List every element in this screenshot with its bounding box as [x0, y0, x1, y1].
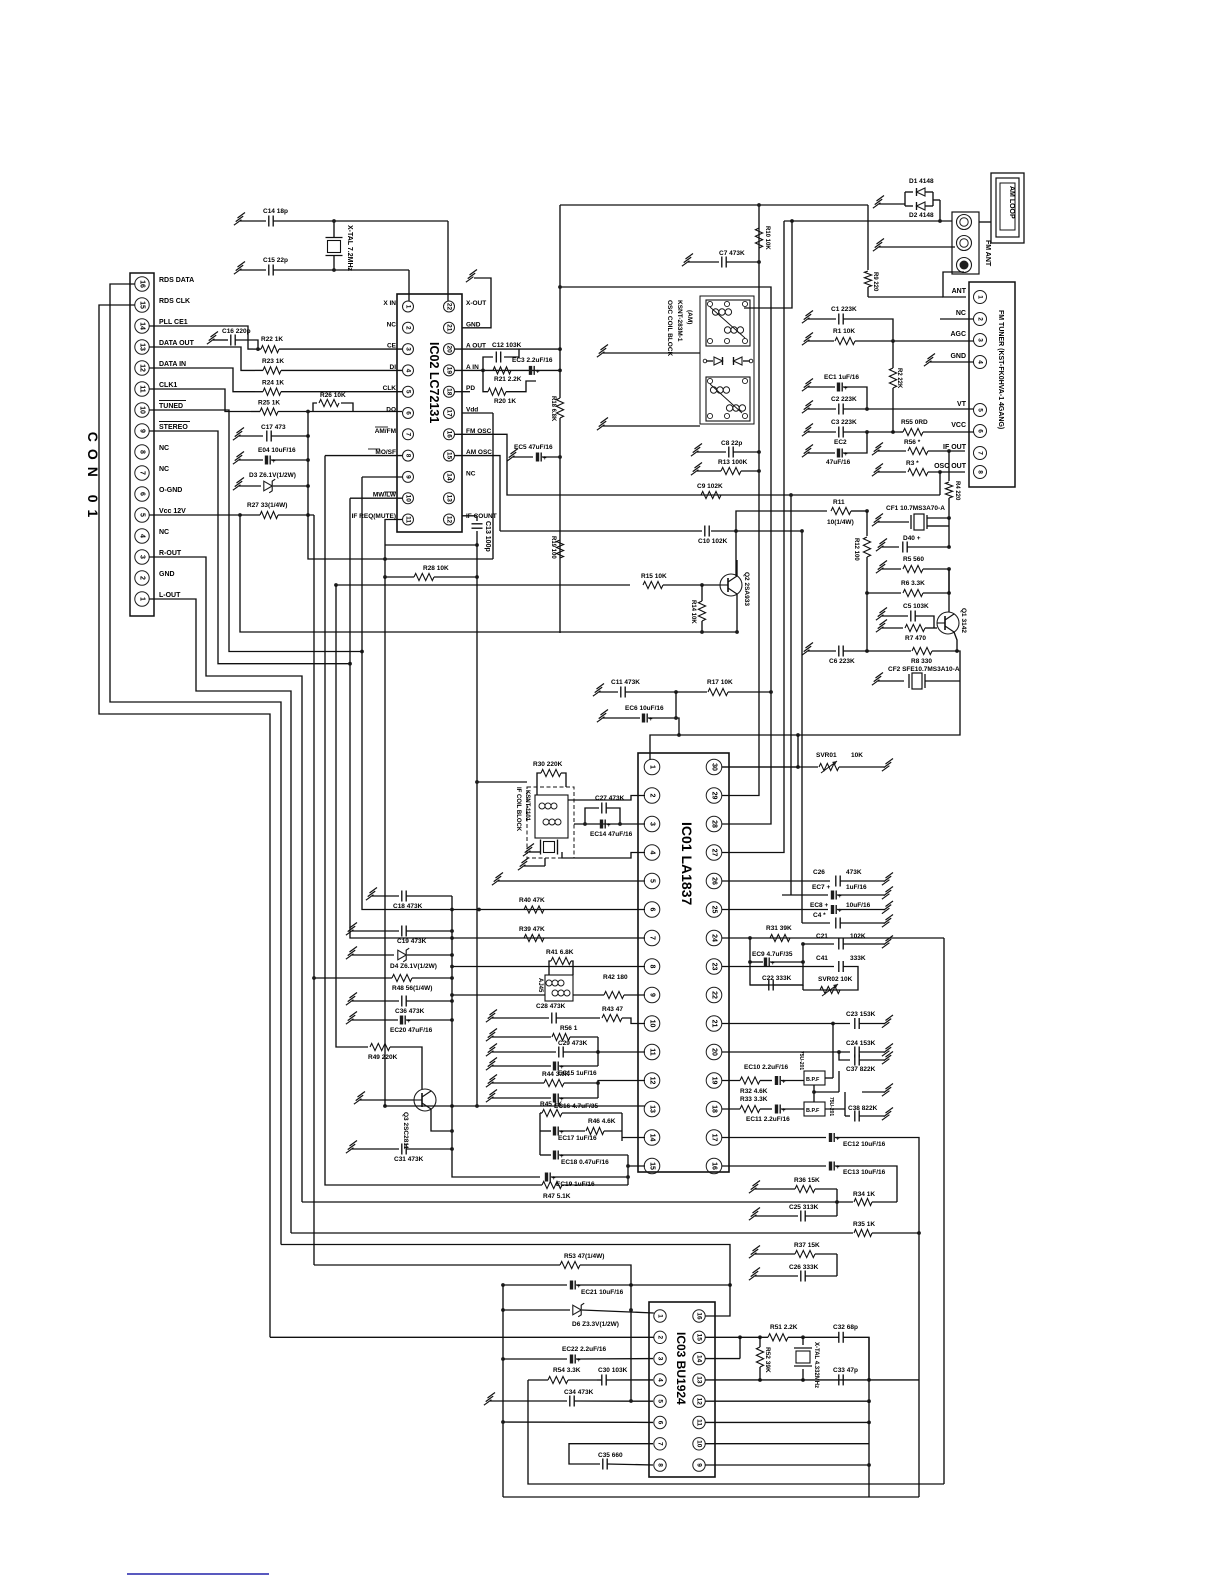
IC01 pin 17 [706, 1130, 722, 1146]
svg-text:C19 473K: C19 473K [397, 938, 427, 945]
connector CON01 body [130, 273, 154, 616]
capacitor EC11 2.2uF/16 [746, 1105, 804, 1124]
svg-text:R21 2.2K: R21 2.2K [494, 376, 522, 383]
capacitor C21 102K [803, 933, 893, 950]
svg-text:X IN: X IN [383, 300, 396, 307]
crystal X-TAL 4.332MHz [794, 1337, 819, 1388]
svg-text:473K: 473K [846, 869, 862, 876]
capacitor EC16 4.7uF/35 [486, 1081, 645, 1111]
capacitor C27 473K [585, 795, 625, 824]
svg-text:75U-201: 75U-201 [798, 1051, 804, 1070]
connector CON01 pin 12 DATA IN [135, 361, 186, 375]
wire Vcc 12V [149, 514, 237, 516]
svg-text:22: 22 [446, 303, 453, 311]
svg-text:16: 16 [139, 280, 146, 288]
svg-text:R10 10K: R10 10K [764, 226, 770, 250]
wire L-OUT bus [149, 599, 291, 1233]
capacitor C16 220p [207, 328, 260, 351]
connector CON01 pin 15 RDS CLK [135, 298, 190, 312]
capacitor C28 473K [486, 1003, 600, 1024]
resistor R41 6.8K [546, 949, 574, 975]
wire A OUT [455, 347, 562, 351]
resistor R4 220 [945, 451, 960, 518]
wire R31 box [748, 938, 805, 985]
svg-text:R2 22K: R2 22K [896, 368, 902, 389]
resistor R10 10K [755, 226, 770, 250]
resistor R31 39K [766, 925, 792, 942]
wire IC02 pin8 stub [325, 455, 402, 457]
IC01 pin 27 [706, 845, 722, 861]
svg-text:10: 10 [649, 1020, 656, 1028]
wire pin13 [383, 577, 645, 1108]
IC03 pin 1 [654, 1310, 666, 1322]
svg-text:C30 103K: C30 103K [598, 1367, 628, 1374]
svg-text:C24 153K: C24 153K [846, 1040, 876, 1047]
wire Vcc to R53 bus [313, 515, 315, 1265]
resistor R22 1K [253, 336, 402, 353]
IC01 pin 16 [706, 1158, 722, 1174]
svg-text:VCC: VCC [951, 422, 966, 429]
svg-text:R40 47K: R40 47K [519, 897, 545, 904]
op-amp IC03 BU1924 body [649, 1302, 715, 1477]
capacitor C30 103K [597, 1367, 653, 1386]
IC01 pin 23 [706, 959, 722, 975]
svg-text:3: 3 [657, 1357, 664, 1361]
wire gnd fm2 [873, 239, 955, 252]
capacitor C26 333K [749, 1264, 837, 1282]
IC01 pin 15 [644, 1158, 660, 1174]
IC01 pin 25 [706, 902, 722, 918]
svg-text:DATA OUT: DATA OUT [159, 340, 195, 347]
wire pin24 [722, 936, 944, 940]
svg-text:OSC OUT: OSC OUT [934, 463, 967, 470]
svg-text:PLL CE1: PLL CE1 [159, 319, 188, 326]
IC02 pin 5 CLK [383, 385, 414, 397]
IC02 pin 7 AM/FM [375, 428, 414, 440]
IC02 pin 4 DI [390, 364, 414, 376]
svg-text:10(1/4W): 10(1/4W) [827, 519, 854, 526]
svg-text:15: 15 [446, 452, 453, 460]
svg-text:AGC: AGC [950, 331, 966, 338]
svg-text:D6 Z3.3V(1/2W): D6 Z3.3V(1/2W) [572, 1321, 619, 1328]
wire pin3 group [574, 823, 645, 825]
svg-text:EC11 2.2uF/16: EC11 2.2uF/16 [746, 1116, 790, 1123]
svg-text:102K: 102K [850, 933, 866, 940]
svg-text:C17 473: C17 473 [261, 424, 286, 431]
wire pin11 line [706, 1421, 871, 1425]
svg-text:R15 10K: R15 10K [641, 573, 667, 580]
svg-text:10: 10 [696, 1440, 703, 1448]
capacitor C11 473K [593, 679, 678, 698]
wire pin8 [450, 965, 645, 969]
svg-text:IF COIL BLOCK: IF COIL BLOCK [515, 787, 521, 832]
resistor R45 1K [540, 1101, 622, 1117]
connector CON01 pin 13 DATA OUT [135, 340, 195, 354]
svg-text:18: 18 [446, 388, 453, 396]
connector CON01 pin 6 O-GND [135, 487, 183, 501]
svg-text:Q2 2SA933: Q2 2SA933 [743, 572, 750, 606]
IC01 pin 30 [706, 759, 722, 775]
svg-text:12: 12 [696, 1398, 703, 1406]
svg-text:9: 9 [139, 429, 146, 433]
capacitor C25 313K [749, 1204, 837, 1222]
resistor R13 100K [691, 459, 759, 475]
svg-text:1: 1 [139, 597, 146, 601]
svg-text:3: 3 [977, 338, 984, 342]
wire pin15 R51 [706, 1335, 742, 1358]
wire X-OUT [447, 221, 449, 301]
svg-text:R46 4.6K: R46 4.6K [588, 1118, 616, 1125]
label MW/LW overline [384, 491, 396, 493]
svg-text:D2 4148: D2 4148 [909, 212, 934, 219]
svg-text:Q1 3142: Q1 3142 [960, 608, 967, 633]
wire PLL CE1 [149, 326, 253, 349]
svg-text:333K: 333K [850, 955, 866, 962]
svg-text:C14 18p: C14 18p [263, 208, 288, 215]
IC01 pin 20 [706, 1044, 722, 1060]
capacitor EC21 10uF/16 [501, 1281, 732, 1297]
svg-text:4: 4 [139, 534, 146, 538]
resistor R26 10K [313, 392, 402, 412]
svg-text:AM LOOP: AM LOOP [1008, 186, 1015, 219]
svg-text:R6 3.3K: R6 3.3K [901, 580, 925, 587]
IC02 pin 8 MO/SF [375, 449, 413, 461]
svg-text:17: 17 [446, 409, 453, 417]
svg-text:C31 473K: C31 473K [394, 1156, 424, 1163]
svg-text:C5 103K: C5 103K [903, 603, 929, 610]
IC02 pin 19 A IN [444, 364, 480, 376]
capacitor C36 473K [346, 993, 452, 1016]
wire pin9 line [706, 1463, 871, 1467]
resistor R14 10K [690, 585, 706, 634]
svg-text:R56 1: R56 1 [560, 1025, 578, 1032]
svg-text:R4 220: R4 220 [954, 481, 960, 501]
svg-text:5: 5 [657, 1399, 664, 1403]
capacitor EC7 1uF/16 [782, 884, 893, 900]
svg-text:C3 223K: C3 223K [831, 419, 857, 426]
capacitor EC3 2.2uF/16 [512, 357, 553, 376]
svg-text:DO: DO [386, 407, 396, 414]
svg-text:KSNT-283M-1: KSNT-283M-1 [676, 300, 683, 342]
wire R-OUT bus [149, 557, 302, 1202]
svg-text:R24 1K: R24 1K [262, 379, 284, 386]
resistor R34 1K [302, 1191, 897, 1206]
svg-text:1: 1 [649, 765, 656, 769]
svg-text:14: 14 [139, 322, 146, 330]
connector CON01 pin 14 PLL CE1 [135, 319, 188, 333]
resistor R8 330 [867, 647, 957, 665]
wire Q3 base gnd [354, 1092, 414, 1105]
IC02 pin 3 CE [387, 343, 414, 355]
IC03 pin 16 [693, 1310, 705, 1322]
IC03 pin 7 [654, 1438, 666, 1450]
svg-text:EC10 2.2uF/16: EC10 2.2uF/16 [744, 1064, 788, 1071]
svg-text:47uF/16: 47uF/16 [826, 459, 851, 466]
svg-text:+: + [607, 823, 611, 829]
diode D1 4148 [873, 178, 934, 208]
capacitor C4 [802, 912, 893, 929]
svg-text:O-GND: O-GND [159, 487, 182, 494]
IC01 pin 28 [706, 816, 722, 832]
connector CON01 pin 11 CLK1 [135, 382, 178, 396]
svg-text:EC6 10uF/16: EC6 10uF/16 [625, 705, 664, 712]
potentiometer SVR01 10K [722, 735, 893, 773]
wire bus AM OSC to C4 [500, 529, 804, 923]
svg-text:CLK: CLK [383, 385, 397, 392]
resistor R11 10(1/4W) [736, 499, 869, 531]
resistor R17 10K [676, 679, 771, 696]
svg-text:DI: DI [390, 364, 397, 371]
svg-text:CF1 10.7MS3A70-A: CF1 10.7MS3A70-A [886, 505, 945, 512]
capacitor C5 103K [876, 603, 934, 628]
svg-text:R56 *: R56 * [904, 439, 921, 446]
capacitor C19 473K [346, 923, 452, 946]
svg-text:C23 153K: C23 153K [846, 1011, 876, 1018]
wire pin5 gnd [492, 873, 645, 886]
wire Q2 emitter [735, 594, 739, 634]
svg-text:R49 220K: R49 220K [368, 1054, 398, 1061]
svg-text:R20 1K: R20 1K [494, 398, 516, 405]
svg-text:10uF/16: 10uF/16 [846, 902, 871, 909]
svg-text:2: 2 [657, 1335, 664, 1339]
wire IF count vert [475, 780, 527, 784]
svg-text:24: 24 [711, 934, 718, 942]
svg-text:R30 220K: R30 220K [533, 761, 563, 768]
wire vert 503 [501, 1285, 505, 1497]
svg-text:TUNED: TUNED [159, 403, 183, 410]
capacitor EC5 47uF/16 [507, 444, 562, 462]
svg-text:C15 22p: C15 22p [263, 257, 288, 264]
resistor R36 15K [749, 1177, 839, 1216]
svg-text:E04 10uF/16: E04 10uF/16 [258, 447, 296, 454]
svg-text:30: 30 [711, 763, 718, 771]
svg-text:7: 7 [977, 451, 984, 455]
connector CON01 pin 10 TUNED [135, 401, 186, 418]
resistor C9 102K [697, 483, 723, 499]
wire pin7 [350, 498, 645, 940]
svg-text:5: 5 [405, 390, 412, 394]
svg-text:12: 12 [649, 1077, 656, 1085]
svg-text:R48 56(1/4W): R48 56(1/4W) [392, 985, 432, 992]
wire top rail [560, 205, 868, 349]
wire Q1 collector [948, 569, 950, 612]
IC01 pin 21 [706, 1016, 722, 1032]
resistor R2 22K [889, 341, 902, 434]
svg-text:R3 *: R3 * [906, 460, 919, 467]
IC02 pin 22 X-OUT [444, 300, 487, 312]
svg-text:R51 2.2K: R51 2.2K [770, 1324, 798, 1331]
svg-text:9: 9 [649, 993, 656, 997]
IC03 pin 10 [693, 1438, 705, 1450]
svg-text:R7 470: R7 470 [905, 635, 926, 642]
IC03 pin 11 [693, 1416, 705, 1428]
svg-text:17: 17 [711, 1134, 718, 1142]
svg-text:C2 223K: C2 223K [831, 396, 857, 403]
svg-text:C37 822K: C37 822K [846, 1066, 876, 1073]
svg-text:12: 12 [139, 364, 146, 372]
svg-text:AJ45: AJ45 [537, 978, 543, 993]
capacitor EC15 1uF/16 [486, 1037, 598, 1077]
svg-text:+: + [536, 370, 540, 376]
IC02 pin 17 Vdd [444, 407, 479, 419]
IC02 pin 14 NC [444, 470, 476, 482]
connector CON01 pin 1 L-OUT [135, 592, 181, 606]
IC02 pin 16 FM OSC [444, 428, 492, 440]
svg-text:16: 16 [446, 431, 453, 439]
resistor R33 3.3K [722, 1096, 772, 1113]
svg-text:GND: GND [159, 571, 175, 578]
wire pin6 line [503, 1421, 653, 1423]
svg-text:R19 100: R19 100 [550, 536, 556, 559]
svg-text:NC: NC [159, 466, 169, 473]
svg-text:EC21 10uF/16: EC21 10uF/16 [581, 1289, 624, 1296]
wire R9 220 [864, 205, 943, 297]
svg-text:11: 11 [696, 1419, 703, 1426]
IC03 pin 3 [654, 1352, 666, 1364]
inductor IF COIL BLOCK KSNT-1101 [515, 787, 574, 858]
IC01 pin 19 [706, 1073, 722, 1089]
wire Q1 emitter [954, 632, 959, 653]
capacitor EC20 47uF/16 [346, 1012, 452, 1035]
svg-text:X-TAL 4.332MHz: X-TAL 4.332MHz [813, 1342, 819, 1388]
svg-text:EC18 0.47uF/16: EC18 0.47uF/16 [561, 1159, 609, 1166]
wire STEREO bus [149, 431, 352, 666]
svg-text:R54 3.3K: R54 3.3K [553, 1367, 581, 1374]
connector FM ANT jack [952, 212, 991, 274]
resistor R52 39K [756, 1337, 771, 1382]
capacitor C23 153K [722, 1011, 893, 1029]
svg-text:23: 23 [711, 963, 718, 971]
svg-text:5: 5 [649, 879, 656, 883]
IC01 pin 14 [644, 1130, 660, 1146]
svg-text:14: 14 [696, 1355, 703, 1363]
IC02 pin 12 IF COUNT [444, 513, 497, 525]
wire CLK1 [149, 389, 251, 412]
svg-text:B.P.F: B.P.F [806, 1077, 820, 1083]
svg-text:L-OUT: L-OUT [159, 592, 181, 599]
svg-text:C41: C41 [816, 955, 828, 962]
svg-text:IF COUNT: IF COUNT [466, 513, 497, 520]
svg-text:4: 4 [977, 360, 984, 364]
svg-text:1: 1 [977, 295, 984, 299]
svg-text:26: 26 [711, 877, 718, 885]
FM TUNER pin 2 NC [956, 310, 987, 326]
wire GND pin21 [462, 270, 491, 328]
svg-text:15: 15 [139, 301, 146, 309]
capacitor EC17 1uF/16 [540, 1127, 597, 1143]
IC01 pin 24 [706, 930, 722, 946]
svg-text:C9 102K: C9 102K [697, 483, 723, 490]
IC03 pin 13 [693, 1374, 705, 1386]
svg-text:R18 6.8K: R18 6.8K [550, 396, 556, 422]
capacitor C37 822K [839, 1052, 893, 1074]
connector CON01 pin 9 STEREO [135, 422, 190, 439]
resistor R18 6.8K [550, 349, 564, 633]
wire RDS CLK bus [99, 305, 270, 1337]
svg-text:GND: GND [466, 321, 481, 328]
wire X IN [408, 270, 410, 301]
svg-text:4: 4 [657, 1378, 664, 1382]
IC02 pin 10 MW/LW [373, 492, 414, 504]
svg-text:C21: C21 [816, 933, 828, 940]
svg-text:C4 *: C4 * [813, 912, 826, 919]
svg-text:28: 28 [711, 820, 718, 828]
FM TUNER pin 6 VCC [951, 422, 986, 438]
svg-text:20: 20 [711, 1048, 718, 1056]
svg-text:C6 223K: C6 223K [829, 658, 855, 665]
connector CON01 pin 4 NC [135, 529, 169, 543]
svg-text:1uF/16: 1uF/16 [846, 884, 867, 891]
resistor R46 4.6K [586, 1118, 622, 1135]
IC02 pin 9 nc [403, 471, 414, 482]
capacitor C8 22p [691, 440, 759, 458]
capacitor EC22 2.2uF/16 [503, 1346, 653, 1364]
svg-text:25: 25 [711, 906, 718, 914]
svg-text:21: 21 [446, 324, 453, 332]
resistor R49 220K [336, 585, 422, 1089]
wire blue underline [127, 1573, 269, 1575]
svg-text:D3 Z6.1V(1/2W): D3 Z6.1V(1/2W) [249, 472, 296, 479]
svg-text:5: 5 [139, 513, 146, 517]
svg-text:R12 100: R12 100 [853, 538, 859, 561]
IC02 pin 21 GND [444, 321, 481, 333]
resistor R15 10K [334, 573, 720, 589]
resistor R51 2.2K [740, 1324, 834, 1341]
svg-text:GND: GND [950, 353, 966, 360]
svg-text:EC12 10uF/16: EC12 10uF/16 [843, 1141, 886, 1148]
wire coil gnds [518, 844, 545, 871]
IC02 pin 15 AM OSC [444, 449, 493, 461]
capacitor C17 473 [233, 424, 310, 442]
svg-text:22: 22 [711, 991, 718, 999]
connector CON01 pin 3 R-OUT [135, 550, 182, 564]
capacitor C2 223K [802, 396, 974, 415]
IC02 pin 18 PD [444, 385, 476, 397]
capacitor C18 473K [366, 888, 452, 911]
IC01 pin 7 [644, 930, 660, 946]
diode varactor pair [703, 357, 753, 365]
svg-text:IF REQ(MUTE): IF REQ(MUTE) [352, 513, 396, 520]
svg-text:R25 1K: R25 1K [258, 400, 280, 407]
svg-text:R47 5.1K: R47 5.1K [543, 1193, 571, 1200]
svg-text:12: 12 [446, 516, 453, 524]
IC01 pin 4 [644, 845, 660, 861]
wire coil to pin2 [568, 796, 645, 801]
svg-text:R52 39K: R52 39K [764, 1347, 771, 1373]
wire pin12 line [706, 1399, 871, 1403]
capacitor C34 473K [484, 1389, 653, 1407]
capacitor C41 333K [722, 955, 866, 990]
svg-text:VT: VT [957, 401, 967, 408]
wire coil gnd lower [597, 418, 700, 431]
capacitor EC12 10uF/16 [722, 1133, 921, 1497]
wire ANT pin1 [943, 272, 966, 297]
IC02 pin 1 X IN [383, 300, 413, 312]
svg-text:2: 2 [405, 326, 412, 330]
capacitor EC9 4.7uF/35 [750, 951, 803, 967]
capacitor EC2 47uF/16 [802, 432, 867, 466]
capacitor EC6 10uF/16 [597, 692, 679, 735]
resistor R54 3.3K [528, 1367, 597, 1384]
capacitor EC18 0.47uF/16 [540, 1151, 628, 1167]
svg-text:ANT: ANT [952, 288, 967, 295]
junction Vcc bus [238, 513, 242, 517]
svg-text:CF2 SFE10.7MS3A10-A: CF2 SFE10.7MS3A10-A [888, 666, 960, 673]
wire bus Vcc line [237, 515, 736, 632]
resistor R3 [872, 460, 965, 476]
wire pin10 line [706, 1443, 870, 1445]
capacitor C32 68p [833, 1324, 869, 1380]
